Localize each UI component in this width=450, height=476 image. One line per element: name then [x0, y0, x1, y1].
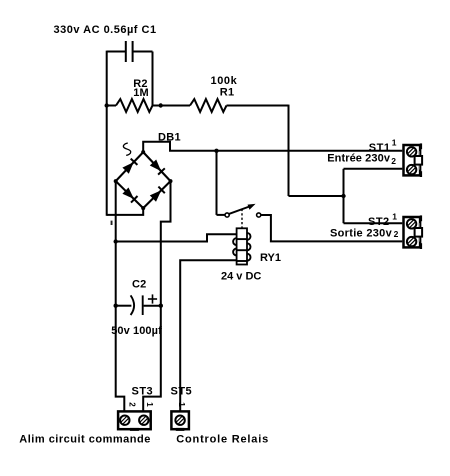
wire (throw to ST2 pin2)	[261, 215, 403, 241]
wire	[227, 105, 289, 107]
wire	[289, 195, 344, 197]
plus polarity mark	[148, 298, 157, 300]
svg-text:24 v DC: 24 v DC	[221, 270, 261, 282]
svg-text:Entrée 230v: Entrée 230v	[327, 153, 391, 165]
wire	[133, 51, 152, 53]
wire	[153, 105, 191, 107]
node dot DB1 top	[141, 150, 145, 154]
wire (DB1 right to C2+)	[161, 181, 171, 306]
terminal ST3	[118, 411, 151, 429]
junction dot (switch feed)	[214, 149, 218, 153]
svg-text:R1: R1	[220, 86, 234, 98]
junction dot (node ST1.2/ST2.1)	[341, 194, 345, 198]
svg-text:330v AC 0.56µf C1: 330v AC 0.56µf C1	[54, 24, 157, 36]
junction dot (R2 left node)	[105, 103, 109, 107]
junction dot (C2 left)	[114, 304, 118, 308]
svg-text:2: 2	[127, 402, 136, 407]
svg-text:2: 2	[394, 229, 399, 239]
wire (DC+ rail to ST3 pin1)	[143, 306, 161, 412]
switch arm	[229, 206, 251, 214]
terminal ST1	[404, 145, 421, 175]
wire (DC- rail)	[116, 242, 125, 412]
svg-text:Sortie 230v: Sortie 230v	[330, 227, 393, 239]
wire (AC rail to DB1 bottom)	[107, 208, 144, 215]
switch arm arrowhead	[248, 204, 256, 210]
svg-text:1: 1	[177, 402, 186, 407]
svg-text:1: 1	[392, 212, 397, 222]
capacitor C2 curved plate	[131, 295, 135, 315]
diode D3 (DB1 lower-left)	[122, 188, 133, 199]
wire (DB1 left to DC- bus)	[115, 181, 117, 241]
terminal ST2	[404, 217, 421, 247]
capacitor C2 straight plate	[142, 295, 144, 315]
resistor R2	[116, 99, 153, 112]
diode D4 (DB1 lower-right)	[150, 190, 162, 202]
svg-text:50v 100µf: 50v 100µf	[111, 325, 162, 337]
polarity tick	[111, 221, 113, 225]
svg-text:2: 2	[391, 156, 396, 166]
diode bridge DB1 body	[116, 152, 171, 208]
wire	[116, 305, 132, 307]
wire	[152, 52, 154, 106]
wire	[343, 169, 345, 196]
svg-text:ST3: ST3	[132, 386, 154, 398]
terminal ST5	[171, 411, 189, 429]
svg-text:1M: 1M	[133, 87, 149, 99]
svg-text:1: 1	[392, 137, 397, 147]
junction dot (R2/R1 node)	[159, 103, 163, 107]
svg-text:Controle Relais: Controle Relais	[176, 434, 269, 446]
node dot DB1 left	[114, 179, 118, 183]
diode D2 (DB1 upper-right)	[150, 160, 161, 172]
node dot DB1 right	[169, 179, 173, 183]
svg-text:ST2: ST2	[368, 216, 390, 228]
resistor R1	[190, 99, 227, 112]
wire (DC- bus to coil)	[116, 234, 237, 241]
wire (coil to ST5)	[180, 260, 236, 411]
wire	[107, 51, 126, 53]
svg-text:Alim circuit commande: Alim circuit commande	[19, 434, 151, 446]
wire	[343, 196, 345, 223]
svg-text:ST5: ST5	[171, 386, 193, 398]
relay coil RY1	[247, 233, 251, 240]
relay contact pole	[225, 213, 229, 217]
wire (DB1 top to ST1 pin1)	[143, 142, 402, 152]
diode D1 (DB1 upper-left)	[122, 162, 133, 174]
relay contact throw	[257, 213, 261, 217]
svg-text:100k: 100k	[211, 75, 238, 87]
AC squiggle mark	[123, 143, 130, 155]
wire	[288, 105, 290, 196]
junction dot (C2 right)	[159, 304, 163, 308]
node dot DB1 bottom	[141, 206, 145, 210]
junction dot (DC- bus)	[114, 239, 118, 243]
svg-text:RY1: RY1	[260, 252, 281, 264]
dashed actuation link	[241, 209, 243, 228]
wire	[216, 151, 218, 215]
wire	[144, 305, 161, 307]
wire	[106, 51, 108, 216]
svg-text:C2: C2	[132, 278, 146, 290]
svg-text:1: 1	[145, 402, 154, 407]
capacitor C1	[125, 41, 127, 62]
